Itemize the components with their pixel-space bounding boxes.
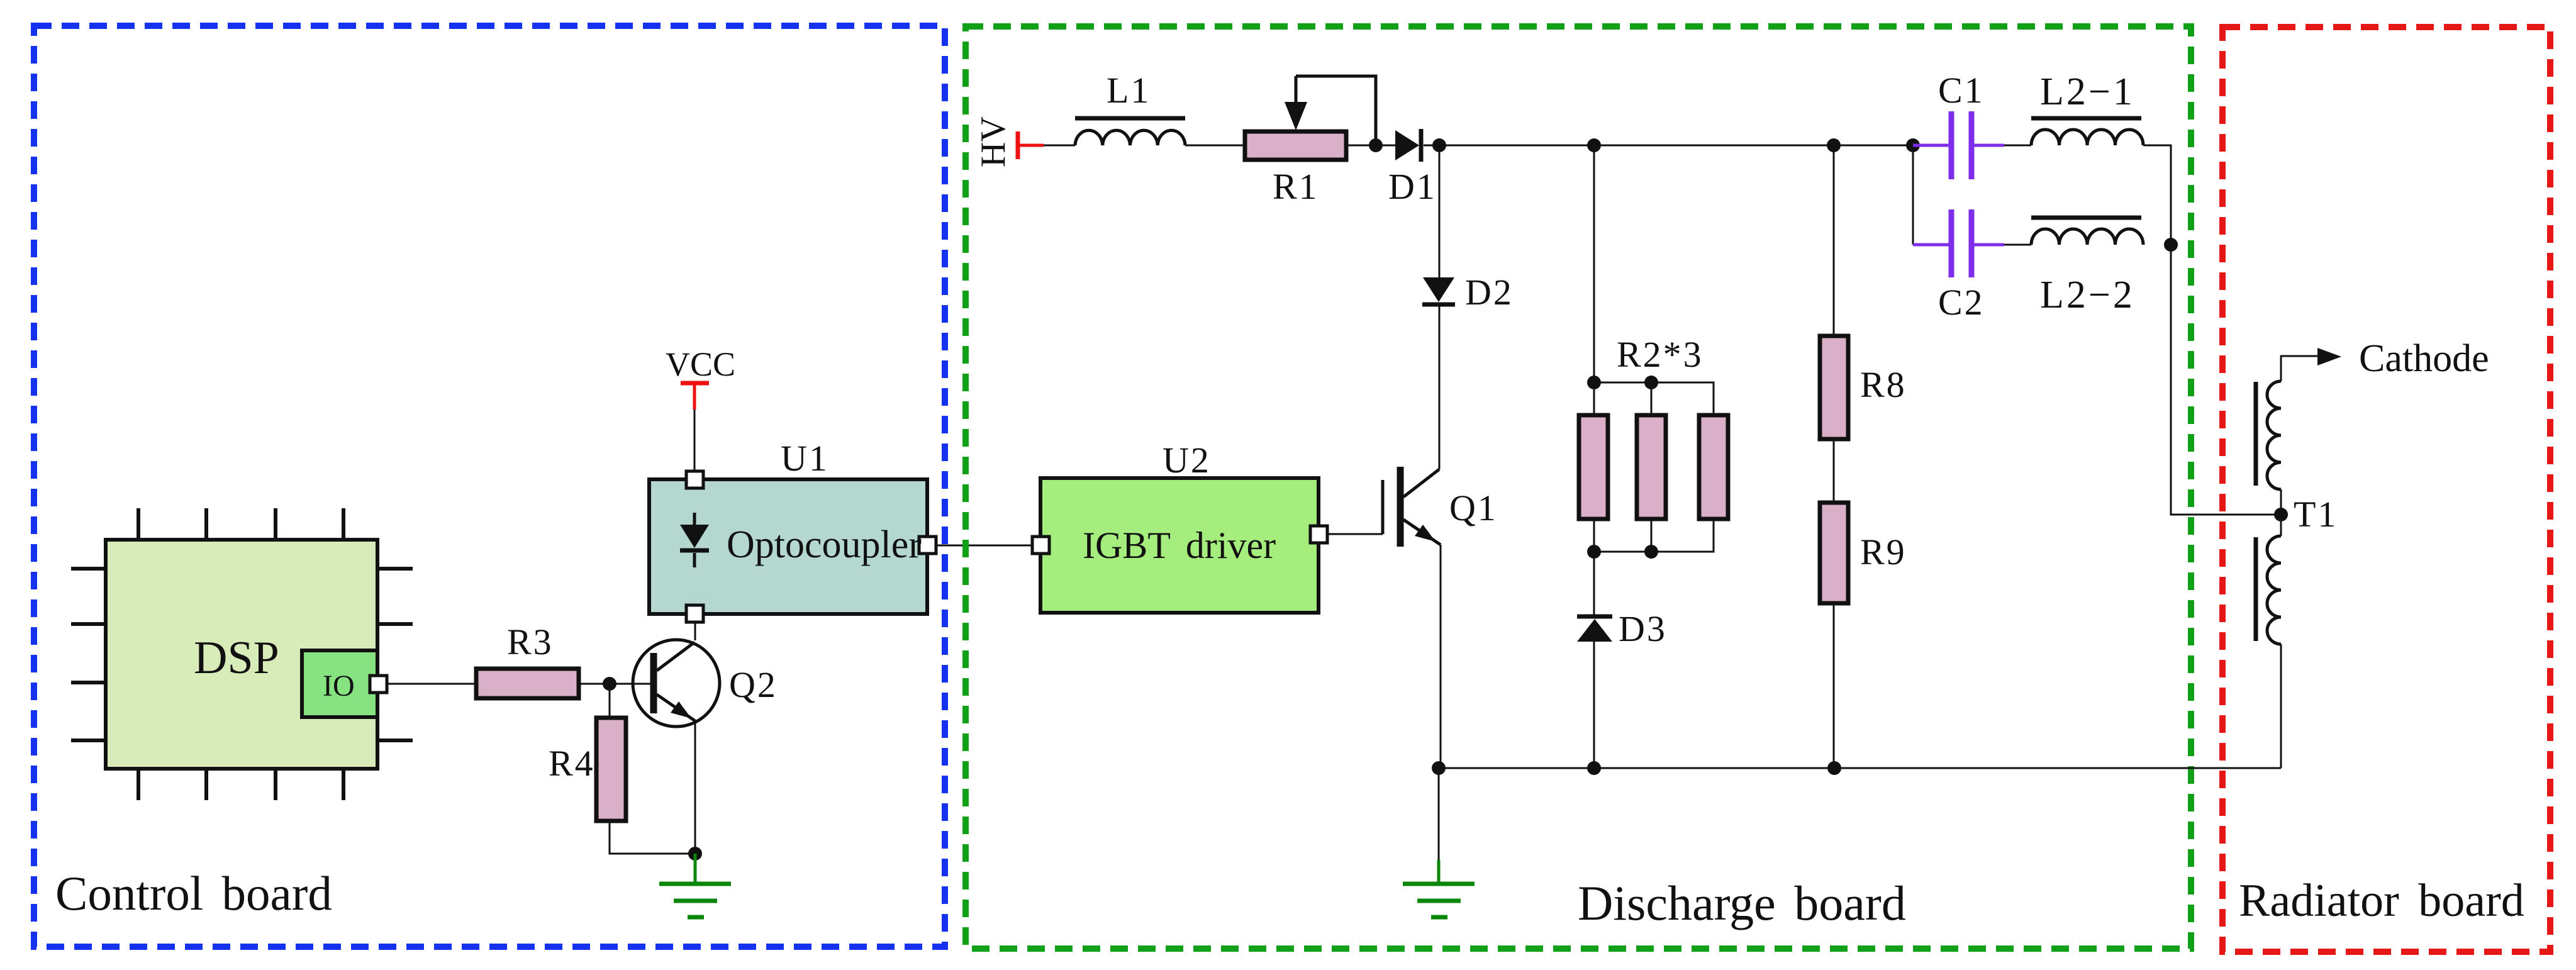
node D3/rail	[1587, 761, 1601, 775]
R2 top bus	[1594, 382, 1714, 415]
wire HV to L1	[1044, 145, 1075, 147]
svg-text:Radiator board: Radiator board	[2239, 875, 2524, 927]
node rail/R2	[1587, 138, 1601, 152]
diode D3	[1577, 616, 1612, 642]
T1 upper core bar	[2254, 382, 2258, 486]
DSP pins left	[71, 569, 106, 740]
R2 bottom bus	[1594, 519, 1714, 552]
node rail/R8	[1827, 138, 1841, 152]
R2 bottom nodes	[1587, 545, 1601, 559]
DSP pins top	[138, 508, 343, 540]
svg-text:IGBT driver: IGBT driver	[1083, 525, 1276, 566]
R2 top bus nodes	[1587, 376, 1601, 389]
svg-text:D3: D3	[1619, 608, 1667, 649]
wire R9 to rail	[1833, 603, 1835, 768]
potentiometer R1	[1245, 131, 1346, 160]
svg-text:L2−2: L2−2	[2040, 274, 2135, 316]
ground (discharge board)	[1403, 768, 1475, 917]
U1 top pin	[686, 471, 703, 488]
cathode arrow	[2317, 348, 2341, 365]
node emitter/rail	[1432, 761, 1446, 775]
node D1 out	[1432, 138, 1446, 152]
wire C1 to L2-1	[2004, 145, 2031, 147]
wire rail to R8	[1833, 145, 1835, 336]
svg-text:L2−1: L2−1	[2040, 70, 2135, 113]
capacitor C1	[1913, 111, 2004, 179]
U1 LED diode	[680, 513, 709, 567]
node emitter/R4/ground	[688, 847, 702, 861]
resistor R3	[476, 669, 579, 698]
diode D1	[1395, 129, 1421, 162]
svg-text:DSP: DSP	[194, 632, 279, 684]
svg-text:Optocoupler: Optocoupler	[727, 523, 922, 566]
wire R3 to Q2 base	[579, 683, 651, 685]
node rail/C1	[1906, 138, 1920, 152]
inductor L2-1	[2031, 118, 2143, 145]
svg-text:R3: R3	[507, 622, 554, 662]
node R3/R4/Q2	[603, 677, 616, 691]
bottom rail wire	[1439, 767, 2281, 769]
resistor R4	[596, 718, 626, 821]
svg-text:U1: U1	[781, 438, 829, 479]
wire C2 to L2-2	[2004, 244, 2031, 246]
svg-text:D2: D2	[1465, 272, 1514, 313]
svg-text:U2: U2	[1163, 440, 1211, 481]
ground (control board)	[659, 854, 731, 917]
wire IO to R3	[387, 683, 476, 685]
R2 resistor 2 leads	[1651, 382, 1653, 415]
top rail wire	[1424, 145, 1914, 147]
svg-text:D1: D1	[1388, 166, 1437, 207]
IO port block	[302, 650, 377, 717]
wire L2-1 right corner down	[2143, 145, 2171, 245]
svg-text:Q2: Q2	[729, 664, 778, 705]
svg-text:HV: HV	[974, 116, 1013, 167]
wire R4 bottom	[610, 821, 695, 854]
wire right vertical to T1	[2171, 245, 2281, 515]
svg-text:R1: R1	[1273, 166, 1319, 207]
T1 secondary coil	[2267, 536, 2281, 644]
transistor Q2	[633, 640, 720, 727]
svg-text:L1: L1	[1107, 70, 1151, 111]
T1 lower core bar	[2254, 537, 2258, 641]
radiator board dashed border	[2222, 27, 2550, 952]
DSP pins bottom	[138, 769, 343, 800]
svg-text:Cathode: Cathode	[2359, 337, 2489, 380]
node T1 center tap	[2274, 508, 2288, 521]
node L2-2/right wire	[2164, 238, 2178, 252]
U2 right pin	[1310, 526, 1327, 543]
control board dashed border	[34, 26, 945, 947]
R2 resistor 1 leads	[1593, 382, 1595, 415]
wire R2 to D3	[1593, 552, 1595, 615]
resistor R8	[1820, 336, 1848, 439]
resistor R9	[1820, 503, 1848, 603]
optocoupler U1 box	[649, 479, 927, 614]
svg-text:R9: R9	[1860, 532, 1907, 572]
U2 left pin	[1032, 537, 1049, 554]
DSP block	[106, 540, 377, 769]
wire T1 bottom to rail	[2280, 644, 2282, 768]
svg-text:VCC: VCC	[666, 345, 735, 383]
svg-text:C2: C2	[1938, 282, 1985, 323]
IGBT driver U2 box	[1040, 478, 1319, 613]
wire U2 to Q1 gate	[1327, 533, 1383, 535]
svg-text:Control board: Control board	[55, 866, 332, 920]
svg-text:IO: IO	[323, 669, 355, 703]
inductor L1	[1075, 118, 1185, 145]
IGBT Q1	[1383, 467, 1441, 547]
wire U1 bottom pin to Q2 collector	[694, 622, 696, 640]
resistor R2c	[1699, 415, 1728, 519]
R1 wiper arrow and loop wire	[1285, 76, 1376, 145]
wire D3 to rail	[1593, 642, 1595, 768]
resistor R2b	[1637, 415, 1666, 519]
capacitor C2	[1913, 209, 2004, 277]
svg-text:C1: C1	[1938, 70, 1985, 111]
U1 right pin	[919, 537, 936, 554]
svg-text:Discharge board: Discharge board	[1578, 876, 1906, 930]
wire C1 node down to C2	[1912, 145, 1914, 245]
resistor R2a	[1579, 415, 1608, 519]
node R1 loop / rail	[1369, 138, 1383, 152]
discharge board dashed border	[966, 26, 2191, 949]
HV power symbol	[1018, 131, 1044, 159]
wire between T1 coils	[2280, 489, 2282, 536]
svg-text:R2*3: R2*3	[1617, 334, 1703, 375]
wire rail to R2*3	[1593, 145, 1595, 382]
cathode wire	[2281, 356, 2319, 381]
wire L1 to R1	[1185, 145, 1245, 147]
svg-text:Q1: Q1	[1449, 488, 1498, 528]
wire Q2 emitter down	[694, 721, 696, 854]
wire R1 to D1	[1346, 145, 1395, 147]
svg-text:T1: T1	[2294, 494, 2338, 535]
wire VCC to U1	[694, 410, 696, 471]
R2 bottom leads	[1593, 519, 1595, 552]
IO pin square	[370, 676, 387, 693]
U1 bottom pin	[686, 605, 703, 622]
inductor L2-2	[2031, 218, 2143, 245]
VCC power symbol	[681, 383, 709, 410]
wire D2 to Q1 collector	[1439, 306, 1441, 469]
svg-text:R8: R8	[1860, 364, 1907, 405]
wire node to R4	[609, 684, 611, 718]
node R9/rail	[1827, 761, 1841, 775]
wire Q1 emitter down	[1440, 545, 1442, 768]
wire U1 to U2	[936, 545, 1032, 547]
transformer T1 primary coil	[2267, 381, 2281, 489]
svg-text:R4: R4	[549, 743, 595, 784]
wire R8 to R9	[1833, 439, 1835, 503]
wire collector upper	[1439, 145, 1441, 277]
diode D2	[1422, 277, 1455, 304]
DSP pins right	[377, 569, 413, 740]
